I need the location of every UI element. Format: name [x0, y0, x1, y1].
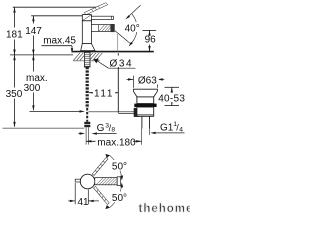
svg-text:147: 147 [25, 26, 42, 37]
svg-text:300: 300 [24, 83, 41, 94]
svg-text:50°: 50° [112, 161, 127, 172]
svg-text:G: G [97, 123, 105, 134]
svg-text:111: 111 [94, 88, 114, 99]
svg-text:G1: G1 [160, 123, 174, 134]
svg-text:max.180: max.180 [97, 138, 136, 149]
svg-text:40°: 40° [125, 24, 140, 35]
svg-text:40-53: 40-53 [158, 94, 185, 105]
svg-text:Ø34: Ø34 [110, 59, 134, 70]
svg-text:96: 96 [145, 35, 157, 46]
svg-text:max.45: max.45 [43, 35, 76, 46]
svg-text:4: 4 [179, 127, 183, 134]
svg-text:Ø63: Ø63 [138, 76, 157, 87]
svg-text:350: 350 [6, 89, 23, 100]
svg-text:8: 8 [111, 127, 115, 134]
svg-text:50°: 50° [112, 193, 127, 204]
svg-text:41: 41 [78, 197, 90, 208]
svg-text:thehome: thehome [139, 203, 191, 215]
svg-text:181: 181 [6, 29, 23, 40]
